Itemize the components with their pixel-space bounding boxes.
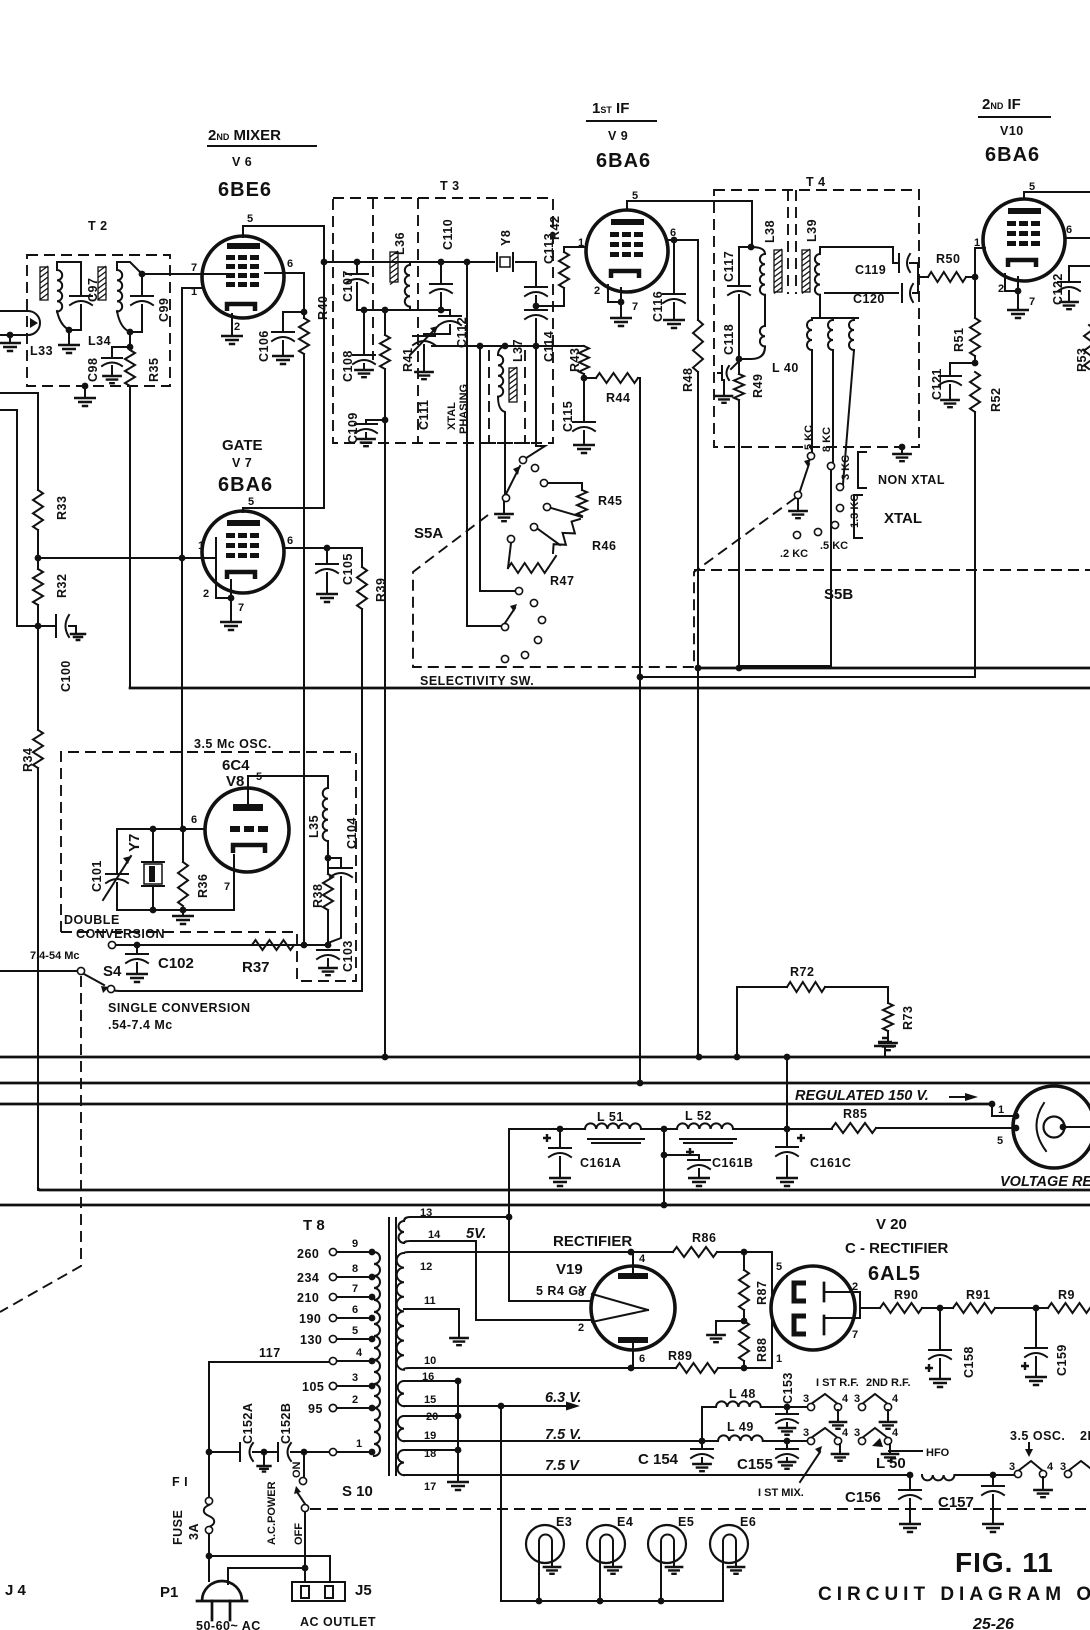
- resistor R36: [182, 829, 184, 862]
- svg-text:6: 6: [639, 1353, 645, 1365]
- svg-text:R86: R86: [692, 1231, 716, 1245]
- S10 mechanical dashed: [310, 1508, 1090, 1510]
- svg-text:1: 1: [356, 1438, 362, 1450]
- svg-text:6: 6: [287, 258, 293, 270]
- svg-text:6: 6: [287, 535, 293, 547]
- svg-text:R37: R37: [242, 959, 270, 976]
- lamp E4: [587, 1525, 625, 1563]
- svg-text:R46: R46: [592, 539, 616, 553]
- resistor R92: [1048, 1303, 1090, 1313]
- capacitor C122: [1069, 266, 1090, 280]
- svg-text:I ST MIX.: I ST MIX.: [758, 1487, 804, 1499]
- bus line y1083: [0, 1082, 1090, 1085]
- svg-text:C159: C159: [1055, 1344, 1069, 1376]
- tap1 wire: [304, 1451, 329, 1453]
- resistor R72: [737, 986, 787, 988]
- capacitor C100: [38, 625, 54, 627]
- svg-text:XTAL: XTAL: [884, 510, 922, 527]
- svg-text:1: 1: [198, 540, 204, 552]
- brackets: [858, 452, 866, 488]
- svg-text:C118: C118: [722, 324, 736, 355]
- 95/105 tap circles: [329, 1382, 336, 1389]
- svg-text:13: 13: [420, 1207, 432, 1219]
- wire to V20 pin5: [744, 1252, 772, 1299]
- svg-text:1: 1: [974, 237, 980, 249]
- capacitor C157: [992, 1475, 994, 1484]
- svg-text:17: 17: [424, 1481, 436, 1493]
- svg-text:R40: R40: [316, 296, 330, 320]
- svg-text:C120: C120: [853, 292, 885, 306]
- svg-text:NON XTAL: NON XTAL: [878, 473, 945, 487]
- wire V7 pin6: [284, 547, 362, 549]
- wire line y688: [130, 687, 1090, 690]
- wire hook from left edge: [0, 410, 38, 626]
- lamp E5: [648, 1525, 686, 1563]
- wire to V20 pin1: [744, 1318, 772, 1368]
- capacitor C161A: [557, 1126, 564, 1133]
- svg-text:L 50: L 50: [876, 1455, 906, 1472]
- svg-text:2: 2: [203, 588, 209, 600]
- svg-text:14: 14: [428, 1229, 441, 1241]
- wire line y677: [639, 677, 641, 1083]
- svg-text:FIG. 11: FIG. 11: [955, 1547, 1054, 1578]
- svg-text:C152A: C152A: [241, 1403, 255, 1444]
- svg-text:R88: R88: [755, 1338, 769, 1362]
- wire R39 down to S4: [111, 609, 362, 991]
- svg-text:C121: C121: [930, 368, 944, 400]
- svg-text:C98: C98: [86, 358, 100, 382]
- ground R36: [182, 910, 184, 914]
- svg-text:Y8: Y8: [499, 230, 513, 246]
- svg-text:7.5 V.: 7.5 V.: [545, 1427, 582, 1443]
- svg-text:R36: R36: [196, 874, 210, 898]
- wire rectifier output riser: [509, 1128, 585, 1130]
- ground R87/R88: [716, 1321, 744, 1333]
- capacitor C159: [1035, 1308, 1037, 1346]
- T8 7.5V winding 20/19: [398, 1416, 404, 1441]
- capacitor C110: [438, 259, 445, 266]
- capacitor C109: [366, 420, 385, 422]
- capacitor C154: [701, 1441, 703, 1447]
- capacitor C116: [671, 237, 678, 244]
- wire T2 to V6 pin7: [142, 273, 225, 275]
- capacitor C104: [328, 858, 341, 866]
- wire AVC to V7 grid: [38, 557, 216, 559]
- svg-text:260: 260: [297, 1247, 319, 1261]
- lamp E6: [710, 1525, 748, 1563]
- svg-text:A.C.POWER: A.C.POWER: [266, 1481, 278, 1545]
- L37 sub-box: [485, 350, 534, 443]
- resistor R41: [382, 307, 389, 314]
- svg-text:3.5 Mc OSC.: 3.5 Mc OSC.: [194, 737, 272, 751]
- node C118: [736, 356, 743, 363]
- node C100: [35, 623, 42, 630]
- T8 primary: [374, 1252, 380, 1456]
- resistor R51: [974, 277, 976, 318]
- svg-text:8 KC: 8 KC: [821, 427, 833, 452]
- resistor R37: [252, 940, 294, 950]
- row2 wire T3: [357, 309, 441, 311]
- T8 6.3V winding 16/15: [398, 1381, 404, 1406]
- svg-text:C117: C117: [722, 251, 736, 282]
- svg-text:R49: R49: [751, 374, 765, 398]
- resistor R91: [953, 1303, 995, 1313]
- svg-text:V 6: V 6: [232, 155, 252, 169]
- svg-text:C158: C158: [962, 1346, 976, 1378]
- wire C119/C120 to R50: [910, 263, 918, 293]
- svg-text:C161C: C161C: [810, 1156, 851, 1170]
- svg-text:C99: C99: [157, 298, 171, 322]
- svg-text:T 8: T 8: [303, 1217, 325, 1234]
- 3.5Mc OSC box: [61, 752, 356, 981]
- svg-text:12: 12: [420, 1261, 432, 1273]
- capacitor C105: [326, 548, 328, 562]
- svg-text:6.3 V.: 6.3 V.: [545, 1390, 582, 1406]
- svg-text:RECTIFIER: RECTIFIER: [553, 1233, 632, 1250]
- pin8 wire: [509, 1217, 592, 1301]
- antenna input loop: [0, 311, 40, 335]
- svg-text:7: 7: [1029, 296, 1035, 308]
- svg-text:L33: L33: [30, 344, 53, 358]
- T8 HV winding pin12/11/10: [397, 1253, 404, 1370]
- bottom node row: [117, 909, 234, 911]
- svg-text:9: 9: [352, 1238, 358, 1250]
- svg-text:C105: C105: [341, 553, 355, 585]
- svg-text:P1: P1: [160, 1584, 178, 1601]
- ground T4 bottom: [899, 444, 906, 451]
- svg-text:C100: C100: [59, 660, 73, 692]
- svg-text:C155: C155: [737, 1456, 773, 1473]
- wire line y668: [698, 667, 1090, 670]
- resistor R43: [579, 346, 589, 374]
- svg-text:117: 117: [259, 1346, 281, 1360]
- resistor R47: [508, 563, 548, 573]
- rail y1205: [0, 1204, 1090, 1207]
- svg-text:L37: L37: [511, 339, 525, 362]
- T8 primary tap 6: [369, 1315, 376, 1322]
- T8 primary tap 2: [369, 1405, 376, 1412]
- wire grid node row: [117, 828, 205, 830]
- capacitor C106: [283, 312, 304, 330]
- wire V9 plate to T4: [627, 201, 752, 247]
- capacitor C98: [112, 347, 130, 356]
- capacitor C113: [535, 262, 537, 285]
- svg-text:4: 4: [892, 1427, 899, 1439]
- svg-text:5: 5: [352, 1325, 358, 1337]
- capacitor C112: [438, 307, 445, 314]
- svg-text:11: 11: [424, 1295, 436, 1307]
- svg-text:2: 2: [352, 1394, 358, 1406]
- svg-text:18: 18: [424, 1448, 436, 1460]
- svg-text:105: 105: [302, 1380, 324, 1394]
- wire V7 plate to supply: [243, 508, 324, 512]
- svg-text:R52: R52: [989, 388, 1003, 412]
- svg-text:R72: R72: [790, 965, 814, 979]
- svg-text:C103: C103: [341, 940, 355, 972]
- svg-text:OFF: OFF: [293, 1523, 305, 1545]
- svg-text:R51: R51: [952, 328, 966, 352]
- capacitor C115: [583, 378, 585, 420]
- lamp bus: [501, 1600, 723, 1602]
- svg-text:C153: C153: [781, 1372, 795, 1404]
- svg-text:2: 2: [578, 1322, 584, 1334]
- bus line B+ y1057: [0, 1056, 1090, 1059]
- resistor R48: [693, 320, 703, 372]
- L39 top wire to C119: [820, 247, 897, 263]
- plug P1: [208, 1556, 210, 1581]
- resistor R42: [564, 247, 586, 252]
- svg-text:R44: R44: [606, 391, 630, 405]
- T8 core: [389, 1218, 396, 1475]
- svg-text:6: 6: [191, 814, 197, 826]
- svg-text:15: 15: [424, 1394, 436, 1406]
- svg-text:2: 2: [852, 1281, 858, 1293]
- resistor R53: [1084, 325, 1090, 369]
- svg-text:7: 7: [191, 262, 197, 274]
- svg-text:S4: S4: [103, 963, 122, 980]
- svg-text:.54-7.4 Mc: .54-7.4 Mc: [108, 1018, 173, 1032]
- svg-text:AC OUTLET: AC OUTLET: [300, 1615, 376, 1629]
- node R42/C113: [533, 303, 540, 310]
- resistor R44: [584, 377, 596, 379]
- resistor R40: [303, 312, 305, 318]
- T8 primary tap 9: [369, 1249, 376, 1256]
- svg-text:E6: E6: [740, 1515, 756, 1529]
- T8 primary tap 3: [369, 1383, 376, 1390]
- T8 5V winding pins13/14: [399, 1221, 405, 1243]
- svg-text:R50: R50: [936, 252, 960, 266]
- svg-text:2: 2: [234, 321, 240, 333]
- outlet J5: [292, 1582, 345, 1601]
- svg-text:SINGLE CONVERSION: SINGLE CONVERSION: [108, 1001, 251, 1015]
- svg-text:C157: C157: [938, 1494, 974, 1511]
- resistor R50: [928, 272, 966, 282]
- transformer T2 box: [27, 255, 170, 386]
- resistor R35: [125, 350, 135, 386]
- capacitor C111 xtal phasing: [413, 335, 435, 337]
- svg-text:R38: R38: [311, 884, 325, 908]
- svg-text:E3: E3: [556, 1515, 572, 1529]
- svg-text:234: 234: [297, 1271, 319, 1285]
- resistor R87: [743, 1252, 745, 1270]
- svg-text:L39: L39: [805, 219, 819, 242]
- capacitor C153: [786, 1407, 788, 1412]
- wire V8 plate to L35: [248, 776, 328, 804]
- wafer row2: [811, 1428, 838, 1438]
- resistor R39: [361, 548, 363, 567]
- wire P1 to switch: [228, 1567, 305, 1569]
- dashed S4 line: [0, 976, 81, 1312]
- svg-text:C115: C115: [561, 401, 575, 432]
- svg-text:R85: R85: [843, 1107, 867, 1121]
- wire 6.3V to lamps: [500, 1406, 502, 1601]
- svg-text:C111: C111: [417, 399, 431, 430]
- svg-text:C110: C110: [441, 219, 455, 250]
- node L34/C99: [127, 329, 134, 336]
- svg-text:7: 7: [352, 1283, 358, 1295]
- capacitor C99: [139, 271, 146, 278]
- wire T3 to lower rotor: [464, 259, 471, 266]
- svg-text:2B: 2B: [1080, 1429, 1090, 1443]
- transformer T4 box: [714, 190, 919, 447]
- capacitor C119: [898, 254, 900, 272]
- ground rail y1190: [40, 1189, 1090, 1192]
- svg-text:C104: C104: [345, 817, 359, 849]
- resistor R38: [327, 858, 329, 874]
- svg-text:Y7: Y7: [126, 834, 143, 852]
- wire R35 down to bus: [129, 386, 131, 688]
- capacitor C101 variable: [116, 829, 118, 872]
- node at input: [7, 332, 14, 339]
- svg-text:I ST R.F.: I ST R.F.: [816, 1377, 859, 1389]
- wire L5152 node down: [663, 1155, 665, 1205]
- wire R49 down to line: [738, 400, 740, 668]
- svg-text:C102: C102: [158, 955, 194, 972]
- svg-text:C161B: C161B: [712, 1156, 753, 1170]
- svg-text:3.5 OSC.: 3.5 OSC.: [1010, 1429, 1065, 1443]
- wire to lower contact: [480, 346, 515, 591]
- svg-text:6: 6: [352, 1304, 358, 1316]
- wire R48 down to bus: [697, 372, 699, 1057]
- svg-text:6BA6: 6BA6: [218, 474, 273, 496]
- svg-text:HFO: HFO: [926, 1447, 950, 1459]
- lamp E3: [526, 1525, 564, 1563]
- resistor R32: [33, 569, 43, 605]
- node wire y945: [112, 944, 328, 946]
- svg-text:5: 5: [247, 213, 253, 225]
- svg-text:R53: R53: [1075, 348, 1089, 372]
- svg-text:190: 190: [299, 1312, 321, 1326]
- wire V6 plate to supply riser: [243, 226, 324, 508]
- svg-text:8: 8: [352, 1263, 358, 1275]
- svg-text:R89: R89: [668, 1349, 692, 1363]
- switch S4: [108, 941, 115, 948]
- svg-text:F I: F I: [172, 1475, 188, 1489]
- resistor R86: [631, 1251, 673, 1253]
- svg-text:R42: R42: [548, 216, 562, 240]
- capacitor C102: [136, 945, 138, 952]
- svg-text:DOUBLE: DOUBLE: [64, 913, 120, 927]
- ground on T2 box bottom: [82, 383, 89, 390]
- ground on bus: [874, 1038, 896, 1046]
- wire filament to L51: [508, 1129, 510, 1217]
- node AVC: [35, 555, 42, 562]
- wire fuse to J5: [209, 1556, 330, 1582]
- S5B box dashed: [694, 569, 1090, 571]
- svg-text:3A: 3A: [187, 1523, 201, 1540]
- svg-text:210: 210: [297, 1291, 319, 1305]
- taps to switch: [811, 350, 813, 453]
- svg-text:7: 7: [852, 1329, 858, 1341]
- svg-text:8: 8: [578, 1287, 584, 1299]
- switch S5B rotor: [794, 491, 801, 498]
- svg-text:R33: R33: [55, 496, 69, 520]
- svg-text:20: 20: [426, 1411, 438, 1423]
- svg-text:3: 3: [352, 1372, 358, 1384]
- capacitor C107: [354, 259, 361, 266]
- svg-text:95: 95: [308, 1402, 323, 1416]
- svg-text:R32: R32: [55, 574, 69, 598]
- svg-text:L 49: L 49: [727, 1420, 754, 1434]
- svg-text:C106: C106: [257, 330, 271, 362]
- T8 primary tap 8: [369, 1274, 376, 1281]
- svg-text:5: 5: [248, 496, 254, 508]
- svg-text:6BA6: 6BA6: [596, 150, 651, 172]
- svg-text:V 7: V 7: [232, 456, 252, 470]
- svg-text:3 KC: 3 KC: [840, 455, 852, 480]
- T8 primary tap 4: [369, 1358, 376, 1365]
- svg-text:J5: J5: [355, 1582, 372, 1599]
- svg-text:C119: C119: [855, 263, 886, 277]
- wire R44 to bus: [638, 378, 640, 677]
- T8 primary tap 7: [369, 1294, 376, 1301]
- svg-text:4: 4: [842, 1393, 849, 1405]
- svg-text:5: 5: [776, 1261, 782, 1273]
- wire R40 down to osc node: [303, 354, 305, 945]
- svg-text:V 20: V 20: [876, 1216, 907, 1233]
- resistor R90: [880, 1303, 922, 1313]
- wire to V10 pin1: [975, 248, 985, 277]
- svg-text:2: 2: [998, 283, 1004, 295]
- svg-text:6AL5: 6AL5: [868, 1263, 921, 1285]
- svg-text:1: 1: [998, 1104, 1004, 1116]
- capacitor C108: [361, 307, 368, 314]
- wire R52 down: [640, 412, 975, 677]
- capacitor C158: [939, 1308, 941, 1348]
- wire V9 pin6 to R48: [668, 240, 698, 320]
- wire R41 down: [384, 369, 386, 1057]
- switch S5A lower rotor: [501, 623, 508, 630]
- svg-text:3: 3: [803, 1393, 809, 1405]
- wire C111 node to R43: [432, 345, 584, 347]
- wire V6 pin6 to R40: [265, 273, 304, 312]
- svg-text:50-60~ AC: 50-60~ AC: [196, 1619, 261, 1630]
- svg-text:3: 3: [854, 1427, 860, 1439]
- svg-text:FUSE: FUSE: [171, 1510, 185, 1545]
- capacitor C152B: [277, 1443, 279, 1461]
- capacitor C118: [731, 361, 739, 369]
- resistor R45: [548, 483, 582, 490]
- resistor R34: [37, 626, 39, 730]
- svg-text:E4: E4: [617, 1515, 633, 1529]
- svg-text:C122: C122: [1051, 273, 1065, 305]
- wire R72 left to bus: [736, 987, 738, 1057]
- resistor R88: [739, 1321, 749, 1361]
- inductor L33: [40, 267, 48, 300]
- svg-text:R43: R43: [568, 348, 582, 372]
- svg-text:C161A: C161A: [580, 1156, 621, 1170]
- T8 primary tap 5: [369, 1336, 376, 1343]
- capacitor C97: [80, 262, 82, 294]
- capacitor C103: [317, 949, 339, 951]
- wire AVC down to V8 grid: [181, 558, 183, 829]
- wire V6 pin1 to AVC line: [182, 288, 203, 558]
- svg-text:5: 5: [997, 1135, 1003, 1147]
- svg-text:SELECTIVITY SW.: SELECTIVITY SW.: [420, 674, 534, 688]
- svg-text:7.5 V: 7.5 V: [545, 1458, 580, 1474]
- svg-text:XTAL: XTAL: [446, 402, 458, 430]
- capacitor C152A: [208, 1362, 210, 1452]
- svg-text:1: 1: [776, 1353, 782, 1365]
- svg-text:S 10: S 10: [342, 1483, 373, 1500]
- resistor R89: [676, 1363, 718, 1373]
- svg-text:V 9: V 9: [608, 129, 628, 143]
- svg-text:C - RECTIFIER: C - RECTIFIER: [845, 1240, 948, 1257]
- wire R34 to ground rail: [37, 768, 39, 1190]
- svg-text:PHASING: PHASING: [458, 384, 470, 434]
- capacitor C117: [739, 247, 751, 284]
- svg-text:7: 7: [238, 602, 244, 614]
